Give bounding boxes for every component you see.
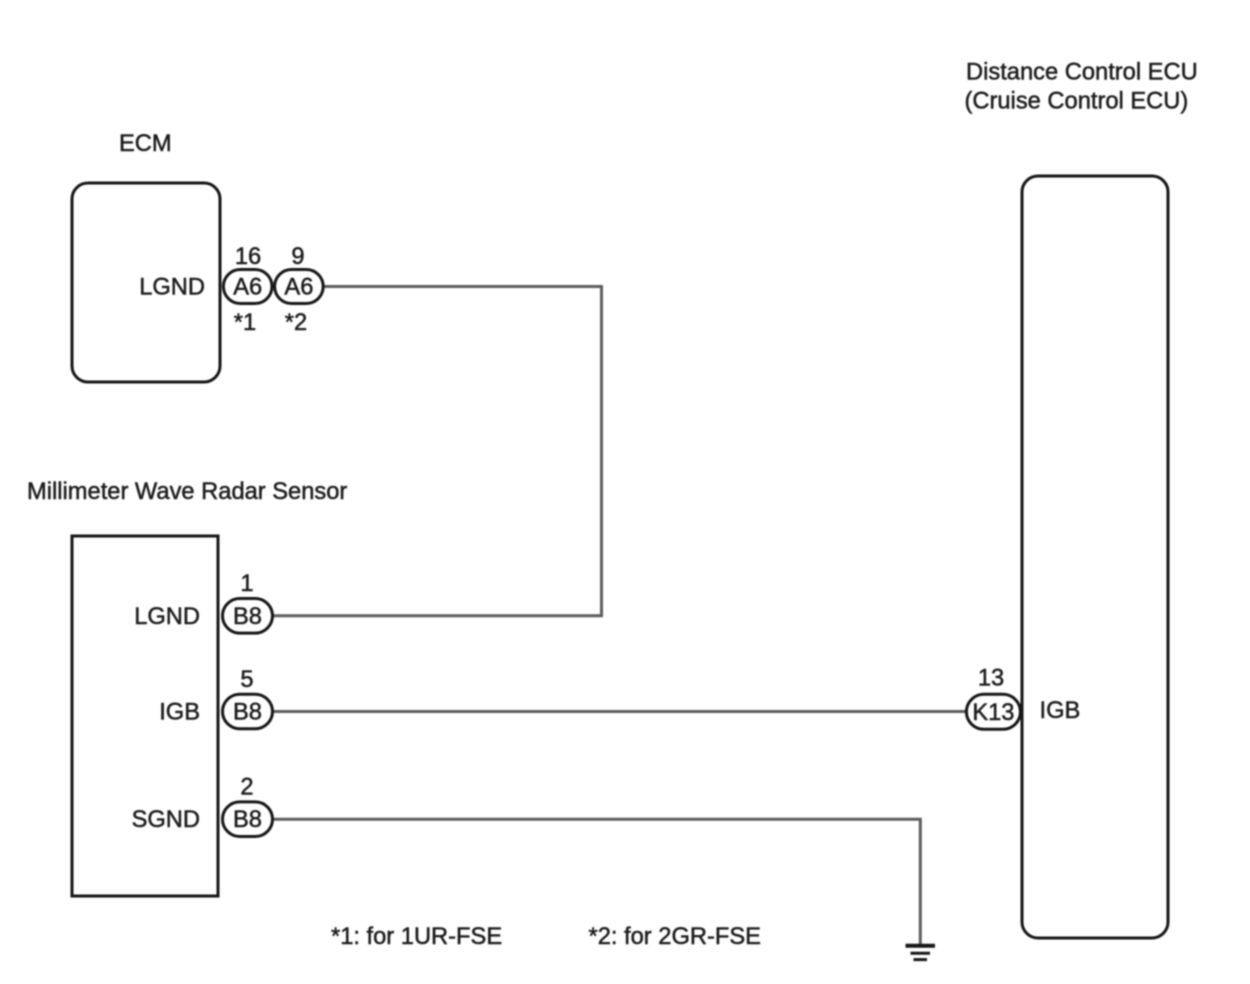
svg-text:ECM: ECM <box>119 131 172 157</box>
connector A6 pin 9 <box>275 270 324 304</box>
connector K13 <box>966 694 1020 729</box>
ECM box <box>72 183 220 382</box>
Millimeter Wave Radar Sensor box <box>72 536 218 896</box>
connector B8 pin 1 <box>223 599 273 634</box>
svg-text:*1: *1 <box>234 310 256 336</box>
svg-text:K13: K13 <box>972 700 1014 726</box>
connector B8 pin 2 <box>223 802 273 837</box>
svg-text:A6: A6 <box>284 275 313 301</box>
svg-text:B8: B8 <box>233 807 262 833</box>
svg-text:5: 5 <box>240 667 253 693</box>
wire LGND: A6 pin to B8 pin 1 <box>273 287 602 616</box>
connector B8 pin 5 <box>223 694 273 729</box>
svg-text:SGND: SGND <box>132 807 200 833</box>
svg-text:LGND: LGND <box>139 275 205 301</box>
connector A6 pin 16 <box>223 270 272 304</box>
svg-text:*2: *2 <box>285 310 307 336</box>
svg-text:IGB: IGB <box>159 700 200 726</box>
svg-text:LGND: LGND <box>134 604 200 630</box>
svg-text:(Cruise Control ECU): (Cruise Control ECU) <box>965 89 1189 115</box>
svg-text:9: 9 <box>291 244 304 270</box>
svg-text:Distance Control ECU: Distance Control ECU <box>966 60 1198 86</box>
Distance Control ECU box <box>1022 176 1168 938</box>
svg-text:B8: B8 <box>233 604 262 630</box>
svg-text:*2: for 2GR-FSE: *2: for 2GR-FSE <box>589 924 761 950</box>
svg-text:A6: A6 <box>233 275 262 301</box>
svg-text:16: 16 <box>235 244 261 270</box>
svg-text:2: 2 <box>240 775 253 801</box>
wire IGB: B8 pin 5 to K13 <box>272 710 967 713</box>
svg-text:*1: for 1UR-FSE: *1: for 1UR-FSE <box>331 924 502 950</box>
wire SGND: B8 pin 2 to ground <box>272 819 920 944</box>
svg-text:Millimeter Wave Radar Sensor: Millimeter Wave Radar Sensor <box>27 479 347 505</box>
svg-text:IGB: IGB <box>1040 698 1081 724</box>
ground <box>906 946 936 960</box>
svg-text:B8: B8 <box>233 700 262 726</box>
svg-text:1: 1 <box>240 571 253 597</box>
svg-text:13: 13 <box>978 666 1004 692</box>
